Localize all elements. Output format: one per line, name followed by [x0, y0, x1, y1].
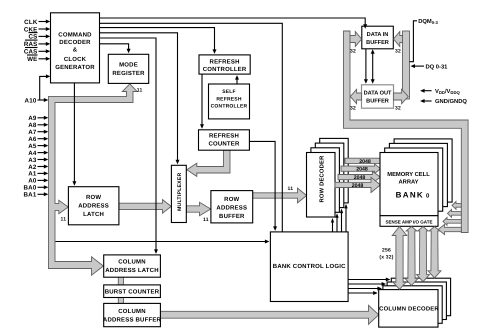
data in buffer left arrow (from internal bus) — [350, 32, 362, 47]
svg-text:BUFFER: BUFFER — [366, 40, 389, 46]
svg-text:SENSE AMP I/O GATE: SENSE AMP I/O GATE — [386, 219, 433, 224]
DQ 0-31 arrow — [414, 65, 424, 67]
address bus to bank control logic — [56, 241, 266, 243]
svg-text:MEMORY CELL: MEMORY CELL — [387, 171, 430, 178]
svg-text:SELF: SELF — [222, 89, 236, 95]
cmd line 2 to bank control logic — [100, 23, 283, 232]
row address buffer — [211, 191, 253, 223]
bank control logic — [270, 232, 348, 302]
bidirectional wire between data in and data out buffers — [372, 53, 374, 80]
svg-text:DQM0-3: DQM0-3 — [418, 18, 438, 25]
svg-text:ROW: ROW — [86, 194, 101, 201]
svg-text:DECODER: DECODER — [59, 39, 91, 46]
svg-text:BURST COUNTER: BURST COUNTER — [105, 288, 160, 295]
cmd line 5 to column address latch — [100, 38, 157, 250]
data out buffer left arrow (to internal bus) — [350, 89, 361, 103]
svg-text:GND/GNDQ: GND/GNDQ — [435, 98, 467, 105]
svg-text:COMMAND: COMMAND — [58, 32, 92, 39]
svg-text:ADDRESS LATCH: ADDRESS LATCH — [105, 267, 159, 274]
svg-text:REFRESH: REFRESH — [209, 133, 239, 140]
wire bank control logic to column decoder bank 2 — [348, 283, 383, 285]
svg-text:BA0: BA0 — [24, 185, 37, 192]
command decoder to row address latch — [73, 83, 75, 182]
svg-text:ADDRESS: ADDRESS — [78, 203, 109, 210]
self refresh controller to refresh controller — [236, 79, 238, 84]
row decoder stack (4 banks) — [320, 138, 349, 203]
svg-text:REFRESH: REFRESH — [210, 58, 240, 65]
svg-text:MULTIPLEXER: MULTIPLEXER — [177, 173, 183, 211]
wire bank control logic to column decoder bank 1 — [348, 288, 378, 290]
svg-text:CLOCK: CLOCK — [64, 56, 87, 63]
multiplexer — [171, 165, 186, 222]
row address buffer to row decoder 11-bit bus — [253, 188, 307, 203]
VDD/VDDQ arrow — [424, 90, 432, 92]
stub from DQ loop bus to bank 3 array right edge — [452, 202, 461, 210]
svg-text:A7: A7 — [28, 129, 37, 136]
svg-text:(x 32): (x 32) — [379, 255, 393, 261]
svg-text:BUFFER: BUFFER — [219, 213, 245, 220]
svg-text:VDD/VDDQ: VDD/VDDQ — [435, 88, 460, 95]
svg-text:A5: A5 — [28, 143, 37, 150]
refresh counter — [199, 130, 250, 150]
svg-text:ARRAY: ARRAY — [398, 179, 418, 185]
column address buffer to column decoder bus — [160, 305, 378, 324]
svg-text:COLUMN: COLUMN — [118, 258, 146, 265]
address bus (A10/A9-A0/BA0-BA1 gray bus with branches to mode register, row address latch, column address latch) — [49, 84, 138, 275]
A10 branch to command decoder — [40, 76, 47, 100]
svg-text:CONTROLLER: CONTROLLER — [203, 66, 247, 73]
DQM0-3 line — [410, 21, 418, 62]
data out buffer right arrow (to DQ bus) — [394, 89, 409, 103]
column address buffer — [104, 303, 161, 326]
svg-text:A1: A1 — [28, 171, 37, 178]
svg-text:11: 11 — [137, 88, 143, 94]
data out buffer — [362, 85, 394, 108]
column address latch / burst counter stub — [118, 276, 123, 286]
svg-text:32: 32 — [395, 49, 401, 55]
cmd line 6 to mode register — [100, 44, 129, 50]
refresh controller to refresh counter — [201, 74, 203, 125]
svg-text:DATA OUT: DATA OUT — [364, 91, 392, 97]
svg-text:A10: A10 — [25, 97, 37, 104]
svg-text:A9: A9 — [28, 115, 37, 122]
svg-text:COLUMN DECODER: COLUMN DECODER — [379, 305, 439, 312]
sense amp I/O gate — [380, 216, 438, 227]
svg-text:WE: WE — [27, 56, 37, 63]
row address latch to multiplexer bus arrow — [119, 200, 171, 214]
DQ-side vertical gray bus right of buffers — [403, 31, 410, 99]
svg-text:LATCH: LATCH — [83, 211, 104, 218]
svg-text:ADDRESS BUFFER: ADDRESS BUFFER — [103, 317, 162, 324]
stub from DQ loop bus to sense amp right edge — [438, 224, 461, 234]
svg-text:COUNTER: COUNTER — [208, 141, 240, 148]
svg-text:32: 32 — [350, 49, 356, 55]
svg-text:11: 11 — [203, 217, 209, 223]
stub from DQ loop bus to bank 1 array right edge — [443, 218, 461, 226]
column address latch — [104, 255, 161, 277]
svg-text:CONTROLLER: CONTROLLER — [211, 104, 248, 110]
svg-text:GENERATOR: GENERATOR — [55, 64, 95, 71]
2048-bit bus row decoder to memory array bank 0 — [335, 177, 380, 192]
refresh counter to bank control logic — [249, 141, 275, 227]
burst counter — [104, 285, 161, 298]
svg-text:11: 11 — [288, 186, 294, 192]
svg-text:ROW: ROW — [224, 196, 239, 203]
svg-text:256: 256 — [382, 248, 391, 254]
2048-bit bus row decoder to memory array bank 2 — [341, 164, 380, 174]
svg-text:2048: 2048 — [352, 183, 364, 189]
svg-text:REGISTER: REGISTER — [112, 70, 145, 77]
svg-text:32: 32 — [395, 106, 401, 112]
svg-text:11: 11 — [61, 217, 67, 223]
svg-text:&: & — [73, 47, 78, 54]
self refresh controller — [209, 84, 250, 119]
svg-text:REFRESH: REFRESH — [216, 96, 241, 102]
svg-text:DQ 0-31: DQ 0-31 — [426, 63, 449, 70]
svg-text:2048: 2048 — [354, 175, 366, 181]
2048-bit bus row decoder to memory array bank 1 — [338, 171, 380, 183]
svg-text:MODE: MODE — [119, 62, 138, 69]
column decoder stack (4 banks) — [391, 278, 450, 316]
wire bank control logic to column decoder bank 3 — [348, 279, 387, 281]
data in buffer — [362, 26, 394, 49]
wire bank control logic to row decoder bank 3 — [345, 207, 347, 232]
svg-text:BANK CONTROL LOGIC: BANK CONTROL LOGIC — [273, 263, 346, 270]
svg-text:BA1: BA1 — [24, 192, 37, 199]
svg-text:CLK: CLK — [24, 19, 38, 26]
stub from DQ loop bus to bank 2 array right edge — [448, 210, 462, 218]
cmd line 4 to multiplexer — [100, 33, 178, 161]
2048-bit bus row decoder to memory array bank 3 — [345, 158, 384, 163]
svg-text:2048: 2048 — [359, 159, 371, 165]
data bus loop: left buffer bus down, across, right vertical down to memory right side — [344, 31, 469, 233]
wire data in buffer to data out buffer — [365, 49, 367, 81]
svg-text:ADDRESS: ADDRESS — [216, 204, 247, 211]
GND/GNDQ arrow — [424, 100, 432, 102]
256(x32) bus sense amp to column decoder bank 0 — [392, 227, 407, 290]
memory cell array stack (4 banks) — [394, 139, 452, 202]
svg-text:A3: A3 — [28, 157, 37, 164]
mode register — [108, 54, 148, 83]
command decoder & clock generator U-CMD — [51, 13, 100, 83]
svg-text:COLUMN: COLUMN — [118, 308, 146, 315]
refresh controller — [199, 55, 250, 74]
multiplexer to row address buffer bus arrow — [186, 202, 210, 215]
svg-text:BUFFER: BUFFER — [366, 98, 389, 104]
svg-text:2048: 2048 — [356, 167, 368, 173]
wire bank control logic to column decoder bank 0 — [348, 292, 374, 294]
wire bank control logic to row decoder bank 1 — [336, 217, 338, 232]
wire bank control logic to row decoder bank 2 — [341, 212, 343, 232]
burst counter / column address buffer stub — [118, 297, 123, 305]
refresh counter to multiplexer gray bus — [187, 150, 230, 176]
cmd line 3 to refresh controller — [100, 28, 215, 51]
svg-text:DATA IN: DATA IN — [367, 32, 389, 38]
row address latch — [68, 187, 119, 225]
wire bank control logic to row decoder bank 0 — [332, 222, 334, 232]
cmd line 1 to data in buffer — [100, 18, 366, 25]
svg-text:32: 32 — [350, 106, 356, 112]
data in buffer right arrow (from DQ bus) — [394, 32, 403, 47]
svg-text:ROW DECODER: ROW DECODER — [319, 155, 326, 203]
